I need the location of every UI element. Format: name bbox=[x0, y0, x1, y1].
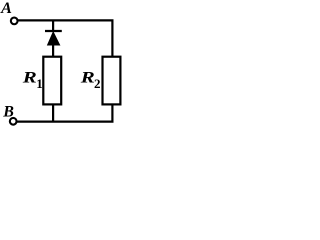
wire: R2 bottom to bottom rail bbox=[111, 105, 113, 122]
wire: R1 bottom to bottom rail bbox=[52, 105, 54, 122]
resistor R1 body bbox=[43, 57, 61, 105]
diode D1 triangle (anode, pointing up) bbox=[48, 32, 60, 45]
terminal A bbox=[11, 18, 18, 25]
svg-text:A: A bbox=[0, 0, 12, 17]
wire: bottom rail from terminal B to R2 branch bbox=[17, 120, 114, 122]
svg-text:R: R bbox=[79, 70, 95, 87]
svg-text:1: 1 bbox=[36, 76, 43, 91]
wire: left branch from top rail down to diode bbox=[52, 20, 54, 30]
wire: top rail from terminal A to top-right corner, then down to R2 bbox=[18, 20, 113, 56]
resistor R2 body bbox=[103, 57, 121, 105]
svg-text:B: B bbox=[2, 104, 14, 121]
svg-text:2: 2 bbox=[94, 76, 101, 91]
wire: diode anode down to R1 bbox=[52, 44, 54, 57]
terminal B bbox=[10, 118, 17, 125]
diode D1 cathode bar bbox=[45, 30, 62, 32]
svg-text:R: R bbox=[21, 70, 37, 87]
